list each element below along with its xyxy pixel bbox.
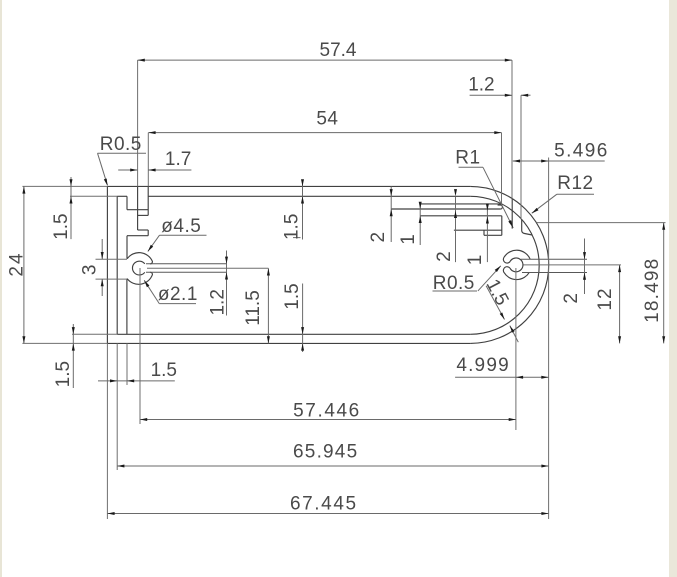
- svg-text:12: 12: [595, 287, 616, 310]
- svg-text:ø2.1: ø2.1: [158, 284, 198, 305]
- svg-text:2: 2: [561, 293, 582, 304]
- svg-text:67.445: 67.445: [290, 493, 358, 514]
- svg-text:2: 2: [368, 232, 389, 243]
- svg-text:11.5: 11.5: [243, 290, 264, 326]
- svg-text:54: 54: [316, 108, 338, 129]
- svg-text:1.5: 1.5: [282, 283, 303, 309]
- svg-text:1.5: 1.5: [282, 214, 303, 240]
- svg-text:1.5: 1.5: [51, 213, 72, 239]
- svg-text:1: 1: [398, 234, 419, 245]
- svg-text:57.446: 57.446: [293, 400, 361, 421]
- svg-text:1.2: 1.2: [208, 289, 229, 315]
- svg-text:1: 1: [465, 255, 486, 266]
- svg-text:57.4: 57.4: [320, 40, 357, 61]
- svg-text:R1: R1: [455, 148, 480, 169]
- svg-text:R12: R12: [557, 173, 593, 194]
- svg-text:65.945: 65.945: [293, 442, 358, 463]
- svg-text:18.498: 18.498: [642, 258, 663, 323]
- svg-text:3: 3: [79, 265, 100, 276]
- svg-text:ø4.5: ø4.5: [161, 216, 201, 237]
- svg-text:5.496: 5.496: [554, 141, 609, 162]
- svg-text:R0.5: R0.5: [100, 134, 142, 155]
- svg-text:1.2: 1.2: [468, 75, 494, 96]
- svg-text:1.5: 1.5: [151, 360, 177, 381]
- svg-text:1.5: 1.5: [482, 276, 513, 309]
- svg-text:1.7: 1.7: [165, 149, 191, 170]
- svg-text:1.5: 1.5: [53, 361, 74, 387]
- svg-text:2: 2: [434, 251, 455, 262]
- svg-text:24: 24: [7, 251, 28, 276]
- svg-text:4.999: 4.999: [456, 355, 510, 376]
